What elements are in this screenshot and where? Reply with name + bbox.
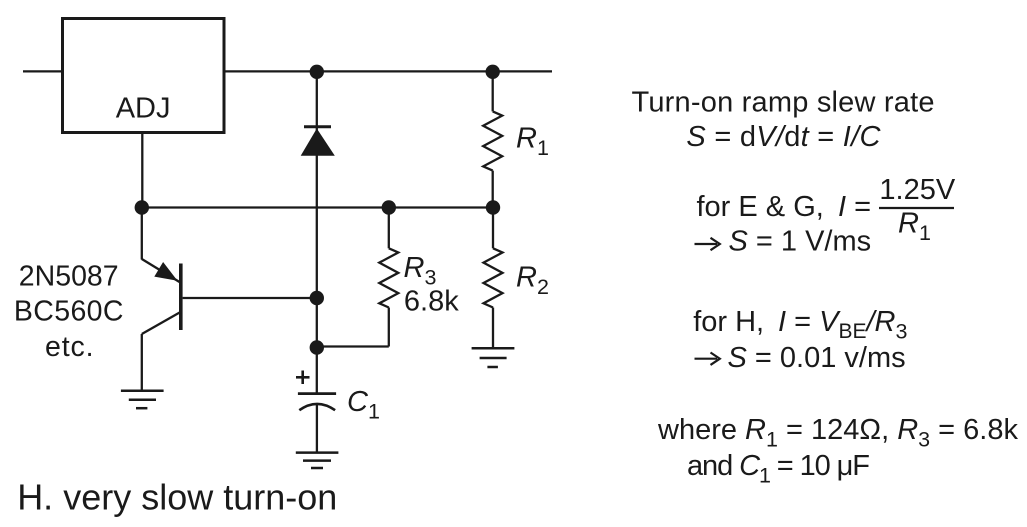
svg-text:etc.: etc. bbox=[45, 331, 94, 363]
svg-text:S = dV/dt = I/C: S = dV/dt = I/C bbox=[686, 121, 881, 153]
svg-text:R1: R1 bbox=[516, 123, 549, 161]
svg-text:S = 1 V/ms: S = 1 V/ms bbox=[729, 226, 872, 258]
svg-text:ADJ: ADJ bbox=[116, 93, 171, 125]
svg-text:for H,: for H, bbox=[693, 306, 764, 338]
svg-text:Turn-on ramp slew rate: Turn-on ramp slew rate bbox=[632, 87, 935, 119]
svg-text:6.8k: 6.8k bbox=[404, 285, 459, 317]
svg-text:BC560C: BC560C bbox=[14, 296, 124, 328]
svg-text:1.25V: 1.25V bbox=[879, 174, 955, 206]
svg-text:I =: I = bbox=[838, 191, 871, 223]
svg-text:where R1 = 124Ω, R3 = 6.8k: where R1 = 124Ω, R3 = 6.8k bbox=[657, 414, 1018, 452]
svg-text:and C1 = 10 μF: and C1 = 10 μF bbox=[687, 450, 870, 488]
svg-text:R3: R3 bbox=[404, 252, 437, 290]
svg-text:H. very slow turn-on: H. very slow turn-on bbox=[17, 477, 337, 518]
svg-text:R1: R1 bbox=[898, 207, 931, 245]
svg-text:I = VBE/R3: I = VBE/R3 bbox=[778, 306, 908, 344]
svg-text:for E & G,: for E & G, bbox=[697, 191, 824, 223]
svg-text:R2: R2 bbox=[516, 262, 549, 300]
svg-text:S = 0.01 v/ms: S = 0.01 v/ms bbox=[728, 342, 906, 374]
svg-text:2N5087: 2N5087 bbox=[19, 260, 119, 292]
svg-text:C1: C1 bbox=[347, 386, 380, 424]
